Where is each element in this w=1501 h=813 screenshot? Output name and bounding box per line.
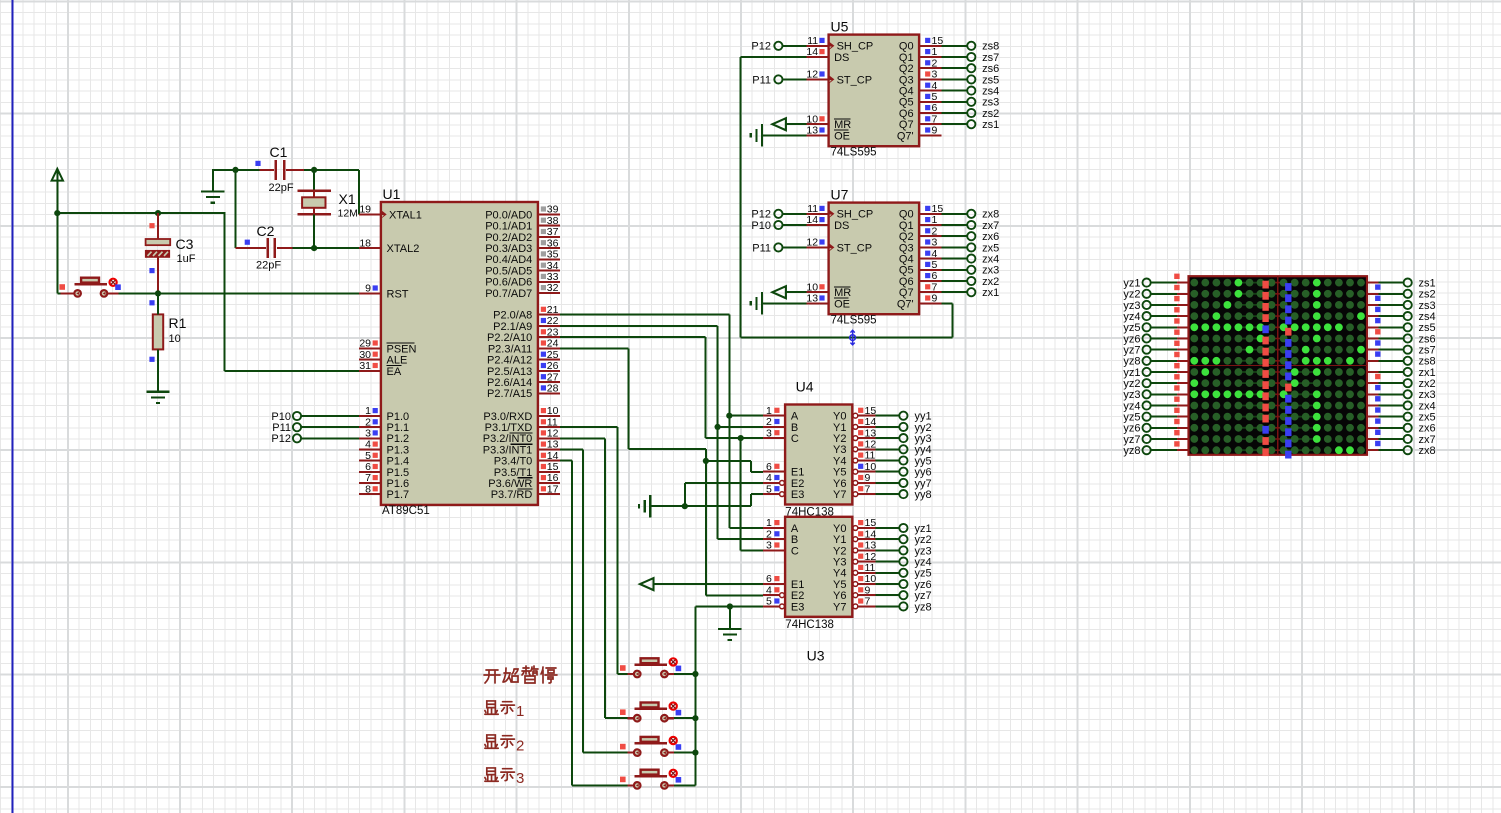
ground terminal at U5.OE [761,124,763,146]
svg-text:15: 15 [865,405,877,417]
svg-text:yz2: yz2 [915,534,932,546]
terminal P10 at U1 [293,412,301,420]
U4 pin E3 pin 5 [780,492,785,497]
svg-text:P11: P11 [752,74,771,86]
svg-text:yy4: yy4 [915,444,932,456]
svg-text:13: 13 [806,125,818,137]
svg-text:Y4: Y4 [833,455,846,467]
svg-text:5: 5 [766,596,772,608]
terminal yy3 [875,437,899,439]
svg-text:SH_CP: SH_CP [837,209,874,221]
U7 pin Q4 pin 4 [919,258,941,260]
U4 pin Y6 pin 9 [853,481,858,486]
U1 pin P0.6/AD6 pin 33 [538,281,560,283]
U5 pin ST_CP pin 12 [807,78,829,80]
svg-text:7: 7 [865,483,871,495]
svg-text:Q5: Q5 [899,97,914,109]
svg-text:zs2: zs2 [982,108,999,120]
U3 pin Y2 pin 13 [853,548,858,553]
origin marker blue cross [850,335,856,341]
svg-text:38: 38 [547,215,559,227]
svg-text:yy1: yy1 [915,411,932,423]
svg-text:Q7: Q7 [899,119,914,131]
matrix left terminal yz2 row 2 [1151,293,1177,295]
svg-text:17: 17 [547,483,559,495]
U1 pin P0.7/AD7 pin 32 [538,292,560,294]
node C1-X1 junction [311,167,317,173]
matrix right terminal zx1 row 9 [1367,371,1378,373]
svg-text:1: 1 [932,46,938,58]
svg-text:U3: U3 [807,647,825,663]
wire P3.2 to button3 vertical [560,437,605,439]
svg-text:P2.6/A14: P2.6/A14 [487,377,532,389]
svg-text:14: 14 [865,528,877,540]
svg-text:13: 13 [806,293,818,305]
push button reset [57,292,61,294]
terminal yz4 [875,561,899,563]
terminal zs8 [942,45,968,47]
svg-text:P2.1/A9: P2.1/A9 [493,321,532,333]
node VCC corner junction [54,210,60,216]
matrix right terminal zx4 row 12 [1367,404,1378,406]
svg-text:DS: DS [834,220,849,232]
svg-text:34: 34 [547,260,559,272]
pin-state squares R1 [149,300,154,305]
power arrow terminal at U3.E1 [640,578,654,590]
svg-text:22pF: 22pF [256,260,281,272]
terminal zx4 [942,258,968,260]
svg-text:10: 10 [806,113,818,125]
svg-text:Y0: Y0 [833,411,846,423]
wire P2.2 to U4.C and U3.C [560,336,705,338]
svg-text:2: 2 [766,528,772,540]
pin-state squares C3 [149,223,154,228]
wire C1 to XTAL1 [304,169,359,171]
svg-text:31: 31 [359,360,371,372]
terminal yy4 [875,448,899,450]
matrix right terminal zs8 row 8 [1367,360,1378,362]
terminal yy2 [875,426,899,428]
svg-text:Y7: Y7 [833,489,846,501]
svg-text:P0.3/AD3: P0.3/AD3 [485,243,532,255]
wire P2.3 to U4.E1 and U3.E2 [560,347,628,349]
U3 pin Y7 pin 7 [853,604,858,609]
U7 pin SH_CP pin 11 [807,213,829,215]
node X1-C2-XTAL2 junction [311,245,317,251]
matrix right terminal zs2 row 2 [1367,293,1378,295]
U1 pin PSEN pin 29 [359,347,381,349]
svg-text:9: 9 [865,472,871,484]
wire ground to U4.E3 [750,494,752,506]
svg-text:4: 4 [766,584,772,596]
U1 pin P3.6/WR pin 16 [538,482,560,484]
svg-text:P1.7: P1.7 [387,489,410,501]
U5 pin Q5 pin 5 [919,101,941,103]
node P2.2 branch [738,435,744,441]
svg-text:yy8: yy8 [915,489,932,501]
terminal zs2 [942,112,968,114]
svg-text:Y1: Y1 [833,422,846,434]
svg-text:36: 36 [547,237,559,249]
svg-text:zs1: zs1 [982,119,999,131]
svg-text:Q2: Q2 [899,63,914,75]
svg-text:yz6: yz6 [915,579,932,591]
svg-text:Y6: Y6 [833,590,846,602]
terminal zx3 [942,269,968,271]
push button 2 [628,717,634,719]
svg-text:C: C [791,545,799,557]
svg-text:9: 9 [932,125,938,137]
svg-text:10: 10 [169,333,181,345]
svg-text:24: 24 [547,338,559,350]
U1 pin P1.5 pin 6 [359,471,381,473]
U3 pin Y5 pin 10 [853,582,858,587]
U7 pin Q1 pin 1 [919,224,941,226]
svg-text:zs5: zs5 [982,74,999,86]
U7 pin DS pin 14 [807,224,829,226]
capacitor C1 [260,169,274,171]
U1 pin P1.4 pin 5 [359,460,381,462]
U7 pin Q0 pin 15 [919,213,941,215]
svg-text:32: 32 [547,282,559,294]
svg-text:23: 23 [547,326,559,338]
terminal yz8 [875,605,899,607]
svg-text:22: 22 [547,315,559,327]
svg-text:Y0: Y0 [833,523,846,535]
svg-text:74LS595: 74LS595 [831,315,877,327]
svg-text:3: 3 [766,427,772,439]
power terminal VCC arrow [52,169,63,181]
svg-text:X1: X1 [339,191,356,207]
terminal yz5 [875,572,899,574]
resistor R1 [153,314,163,349]
svg-text:XTAL2: XTAL2 [387,243,420,255]
svg-text:yz1: yz1 [915,523,932,535]
U7 pin Q5 pin 5 [919,269,941,271]
svg-text:7: 7 [932,281,938,293]
U1 pin P2.4/A12 pin 25 [538,359,560,361]
matrix left terminal yz6 row 6 [1151,337,1177,339]
U3 pin B pin 2 [763,538,785,540]
svg-text:yy7: yy7 [915,478,932,490]
wire RST net [108,292,359,294]
U7 pin MR pin 10 [807,291,829,293]
svg-text:U4: U4 [796,379,814,395]
svg-text:5: 5 [766,483,772,495]
svg-text:zs6: zs6 [982,63,999,75]
terminal zx7 [942,224,968,226]
pin-state square C2 [245,240,250,245]
svg-text:AT89C51: AT89C51 [382,505,430,517]
svg-text:E3: E3 [791,489,804,501]
U1 pin P0.3/AD3 pin 36 [538,247,560,249]
U1 pin P0.5/AD5 pin 34 [538,270,560,272]
chip U1 AT89C51 body [381,202,538,505]
svg-text:P0.7/AD7: P0.7/AD7 [485,288,532,300]
terminal zs3 [942,101,968,103]
ground near C1 [201,190,224,192]
svg-text:Y5: Y5 [833,467,846,479]
matrix right terminal zs1 row 1 [1367,282,1378,284]
U5 pin MR pin 10 [807,123,829,125]
U5 pin Q7 pin 7 [919,123,941,125]
U3 pin E3 pin 5 [780,604,785,609]
chip U5 74LS595 body [829,35,920,147]
wire U3.E3 to buttons and ground [695,606,763,608]
svg-text:Q4: Q4 [899,86,914,98]
svg-text:Q4: Q4 [899,254,914,266]
U7 pin Q2 pin 2 [919,235,941,237]
terminal P11 at U7 [774,243,782,251]
terminal zs4 [942,90,968,92]
U1 pin EA pin 31 [359,370,381,372]
svg-text:3: 3 [932,69,938,81]
terminal yy8 [875,493,899,495]
svg-text:29: 29 [359,338,371,350]
svg-text:MR: MR [834,119,851,131]
wire X1 top lead [313,170,315,191]
matrix left terminal yz2 row 10 [1151,382,1177,384]
svg-text:yz3: yz3 [915,545,932,557]
U5 pin Q1 pin 1 [919,56,941,58]
label xianshi-1 (Chinese) [485,701,498,714]
push button 4 [628,784,634,786]
svg-text:Y6: Y6 [833,478,846,490]
U1 pin P2.5/A13 pin 26 [538,370,560,372]
svg-text:10: 10 [806,281,818,293]
label kaishi-zanting (Chinese) [484,670,500,683]
svg-text:C3: C3 [176,236,194,252]
matrix left terminal yz8 row 8 [1151,360,1177,362]
U1 pin P3.7/RD pin 17 [538,493,560,495]
svg-text:P0.5/AD5: P0.5/AD5 [485,265,532,277]
svg-text:7: 7 [865,596,871,608]
node RST junction [155,290,161,296]
svg-text:zx8: zx8 [982,209,999,221]
U7 pin Q6 pin 6 [919,280,941,282]
terminal zx8 [942,213,968,215]
U4 pin E1 pin 6 [763,471,785,473]
U5 pin Q2 pin 2 [919,67,941,69]
terminal yz6 [875,583,899,585]
terminal zx6 [942,235,968,237]
svg-text:EA: EA [387,366,402,378]
svg-text:21: 21 [547,304,559,316]
terminal yz1 [875,527,899,529]
svg-text:1: 1 [932,214,938,226]
svg-text:74LS595: 74LS595 [831,147,877,159]
ground terminal at U7.OE [761,292,763,314]
terminal P12 at U7 [774,210,782,218]
svg-text:9: 9 [932,293,938,305]
svg-text:Y7: Y7 [833,601,846,613]
svg-text:XTAL1: XTAL1 [389,209,422,221]
U5 pin Q0 pin 15 [919,45,941,47]
pin-state squares reset button [59,284,65,290]
U3 pin A pin 1 [763,527,785,529]
U4 pin Y3 pin 12 [853,447,858,452]
svg-text:Y1: Y1 [833,534,846,546]
pin-state square C1 [255,161,260,166]
svg-text:2: 2 [516,738,524,755]
svg-text:yy3: yy3 [915,433,932,445]
svg-text:30: 30 [359,349,371,361]
wire U5.DS rail to U7.Q7-prime [741,56,807,58]
terminal zs6 [942,67,968,69]
node C1-C2 junction [232,167,238,173]
U1 pin P2.6/A14 pin 27 [538,381,560,383]
svg-text:6: 6 [932,270,938,282]
matrix left terminal yz3 row 3 [1151,304,1177,306]
terminal zx2 [942,280,968,282]
svg-text:P11: P11 [752,242,771,254]
svg-text:33: 33 [547,271,559,283]
svg-text:4: 4 [766,472,772,484]
wire ground to U4.E2 [684,483,686,506]
wire X1 bottom lead [313,214,315,248]
svg-text:2: 2 [766,416,772,428]
svg-text:8: 8 [365,483,371,495]
matrix right terminal zs6 row 6 [1367,337,1378,339]
svg-text:Q2: Q2 [899,231,914,243]
U3 pin Y0 pin 15 [853,526,858,531]
chip U7 74LS595 body [829,203,920,315]
wire VCC rail horizontal [56,212,58,293]
svg-text:Q1: Q1 [899,52,914,64]
svg-text:P12: P12 [271,433,291,445]
U1 pin P2.0/A8 pin 21 [538,314,560,316]
U3 pin Y3 pin 12 [853,559,858,564]
svg-text:A: A [791,411,799,423]
svg-text:Q7': Q7' [897,130,914,142]
svg-text:14: 14 [806,214,818,226]
svg-text:18: 18 [359,237,371,249]
svg-text:zs8: zs8 [982,41,999,53]
svg-text:ST_CP: ST_CP [837,242,872,254]
terminal yy6 [875,471,899,473]
U3 pin Y4 pin 11 [853,570,858,575]
svg-text:Q7: Q7 [899,287,914,299]
svg-text:Y3: Y3 [833,557,846,569]
chip U4 74HC138 body [785,405,852,505]
matrix right terminal zs4 row 4 [1367,315,1378,317]
svg-text:zx1: zx1 [982,287,999,299]
terminal P11 at U1 [293,423,301,431]
svg-text:C1: C1 [270,144,288,160]
svg-text:yz4: yz4 [915,557,932,569]
U7 pin Q3 pin 3 [919,246,941,248]
svg-text:10: 10 [865,573,877,585]
U1 pin ALE pin 30 [359,359,381,361]
svg-text:yy2: yy2 [915,422,932,434]
svg-text:U7: U7 [831,187,849,203]
svg-text:13: 13 [865,427,877,439]
push button 1 [628,673,634,675]
U1 pin P0.1/AD1 pin 38 [538,225,560,227]
terminal yy1 [875,415,899,417]
svg-text:Q7': Q7' [897,298,914,310]
matrix left terminal yz4 row 4 [1151,315,1177,317]
svg-text:P2.2/A10: P2.2/A10 [487,332,532,344]
svg-text:1: 1 [516,703,524,720]
U1 pin P2.2/A10 pin 23 [538,336,560,338]
svg-text:A: A [791,523,799,535]
wire P3.3 to button4 vertical [560,449,583,451]
svg-text:zx4: zx4 [982,254,999,266]
power arrow terminal at U7.MR [772,286,786,298]
matrix right terminal zs3 row 3 [1367,304,1378,306]
LED matrix inner pin stubs [1266,283,1283,451]
ground below R1 [146,391,169,393]
push button 3 [628,751,634,753]
svg-text:P10: P10 [271,411,291,423]
U1 pin P1.2 pin 3 [359,437,381,439]
svg-text:P0.4/AD4: P0.4/AD4 [485,254,532,266]
svg-text:P2.5/A13: P2.5/A13 [487,366,532,378]
U1 pin P1.6 pin 7 [359,482,381,484]
svg-text:PSEN: PSEN [387,343,417,355]
node button junctions [692,671,698,677]
terminal zx5 [942,246,968,248]
svg-text:1: 1 [766,405,772,417]
LED matrix inner row traces [1238,283,1314,451]
LED matrix divider lines [1277,276,1279,455]
U4 pin Y7 pin 7 [853,492,858,497]
terminal yy5 [875,460,899,462]
U1 pin P3.2/INT0 pin 12 [538,437,560,439]
svg-text:yy6: yy6 [915,467,932,479]
svg-text:11: 11 [865,450,876,462]
chip U3 74HC138 body [785,517,852,617]
U4 pin Y0 pin 15 [853,413,858,418]
svg-text:Q0: Q0 [899,41,914,53]
svg-text:B: B [791,534,798,546]
svg-text:2: 2 [932,57,938,69]
svg-text:zx6: zx6 [982,231,999,243]
svg-text:4: 4 [932,80,938,92]
svg-text:3: 3 [932,237,938,249]
svg-text:Q3: Q3 [899,242,914,254]
U1 pin P3.5/T1 pin 15 [538,471,560,473]
svg-text:Q0: Q0 [899,209,914,221]
svg-text:yz5: yz5 [915,568,932,580]
svg-text:Q1: Q1 [899,220,914,232]
U1 pin P2.3/A11 pin 24 [538,347,560,349]
wire P3.4 to button5 vertical [560,460,572,462]
svg-text:5: 5 [932,91,938,103]
svg-text:P0.6/AD6: P0.6/AD6 [485,277,532,289]
U4 pin Y2 pin 13 [853,436,858,441]
matrix left terminal yz7 row 15 [1151,438,1177,440]
U7 pin Q7 pin 7 [919,291,941,293]
U1 pin P1.3 pin 4 [359,449,381,451]
svg-text:Y3: Y3 [833,444,846,456]
LED matrix display body [1189,276,1368,455]
U5 pin OE pin 13 [807,134,829,136]
svg-text:1: 1 [766,517,772,529]
svg-text:27: 27 [547,371,559,383]
terminal yz2 [875,538,899,540]
terminal yz7 [875,594,899,596]
svg-text:zs7: zs7 [982,52,999,64]
U1 pin P0.2/AD2 pin 37 [538,236,560,238]
terminal P10 at U7 [774,221,782,229]
U1 pin XTAL2 pin 18 [359,247,381,249]
svg-text:P2.0/A8: P2.0/A8 [493,310,532,322]
svg-text:Q3: Q3 [899,74,914,86]
U7 pin OE pin 13 [807,302,829,304]
terminal P12 at U1 [293,434,301,442]
